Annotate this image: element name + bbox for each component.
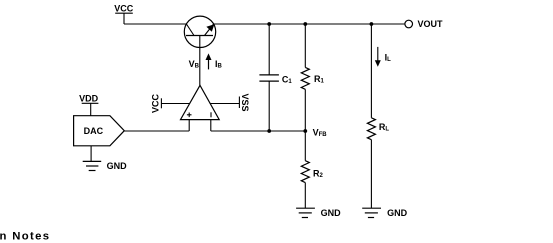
- ground (RL): [362, 208, 407, 218]
- svg-text:C1: C1: [282, 74, 293, 85]
- svg-text:n Notes: n Notes: [0, 231, 50, 243]
- node: top rail junction at RL: [370, 22, 374, 26]
- svg-text:GND: GND: [107, 161, 128, 171]
- wire: Q1 base to op-amp U1 output: [199, 48, 201, 86]
- DAC U2: [74, 116, 125, 146]
- resistor R1: [301, 24, 324, 131]
- power VDD (DAC supply): [79, 93, 99, 115]
- wire: op-amp - input to VFB: [211, 130, 305, 132]
- node: VFB junction at R1/R2: [303, 129, 307, 133]
- svg-text:IB: IB: [215, 59, 223, 70]
- wire: op-amp + input stub: [188, 120, 190, 131]
- ground (R2): [296, 208, 341, 218]
- capacitor C1: [259, 24, 292, 131]
- svg-text:R1: R1: [314, 74, 325, 85]
- op-amp U1: [181, 85, 220, 119]
- svg-text:R2: R2: [313, 168, 324, 179]
- wire: op-amp - input stub: [210, 120, 212, 131]
- transistor Q1: [184, 16, 215, 47]
- node: top rail junction at R1: [303, 22, 307, 26]
- svg-text:VFB: VFB: [313, 128, 328, 139]
- node: VFB junction at C1: [267, 129, 271, 133]
- wire: VCC to Q1 collector: [124, 23, 187, 25]
- wire: DAC output to op-amp + input: [124, 130, 189, 132]
- svg-text:IL: IL: [385, 52, 392, 63]
- svg-text:VB: VB: [189, 59, 200, 70]
- node: top rail junction at C1: [267, 22, 271, 26]
- op-amp VCC supply pin: [151, 94, 190, 114]
- terminal VOUT: [405, 19, 443, 29]
- svg-text:RL: RL: [379, 122, 390, 133]
- ground (DAC): [83, 146, 127, 171]
- svg-text:VSS: VSS: [240, 93, 250, 111]
- wire: Q1 emitter to output rail: [214, 23, 405, 25]
- svg-text:VCC: VCC: [114, 3, 134, 13]
- svg-text:VOUT: VOUT: [418, 19, 444, 29]
- resistor RL (load): [367, 24, 389, 208]
- current arrow IB: [206, 53, 223, 69]
- current arrow IL: [375, 47, 391, 67]
- svg-text:VDD: VDD: [79, 93, 99, 103]
- svg-text:VCC: VCC: [151, 94, 161, 114]
- svg-text:GND: GND: [321, 208, 342, 218]
- svg-text:DAC: DAC: [84, 126, 104, 136]
- svg-text:GND: GND: [387, 208, 408, 218]
- op-amp VSS supply pin: [210, 93, 250, 111]
- power VCC (top left): [114, 3, 134, 24]
- resistor R2: [301, 131, 323, 208]
